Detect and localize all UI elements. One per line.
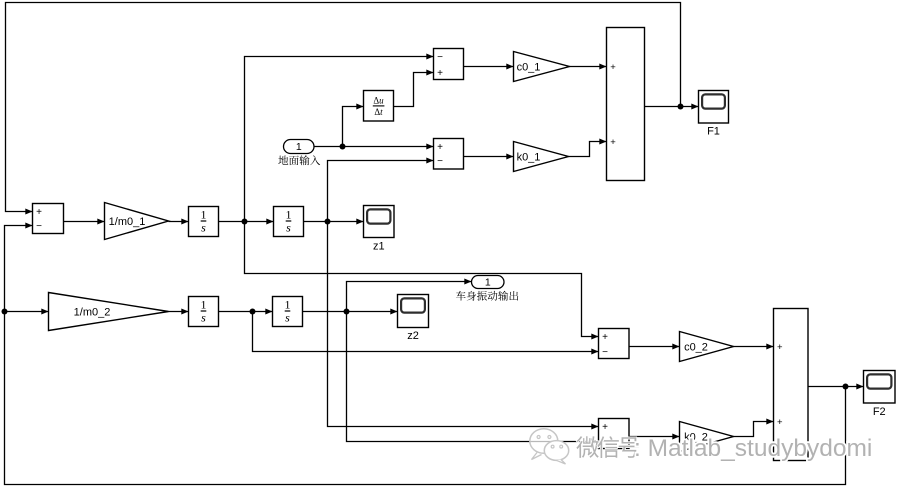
wire gain 1/m0_1 to integrator I1 bbox=[169, 221, 189, 223]
svg-text:+: + bbox=[602, 332, 608, 343]
wire adder Add1 output to scope F1 bbox=[645, 106, 699, 108]
node B wheel displacement junction bbox=[325, 219, 331, 225]
wire F1 feedback loop to sum S1 plus input bbox=[6, 3, 681, 212]
svg-text:c0_2: c0_2 bbox=[684, 342, 708, 354]
svg-text:1/m0_2: 1/m0_2 bbox=[74, 307, 111, 319]
out port 1 (body vibration output) bbox=[472, 276, 505, 289]
wire gain k0_2 to adder Add2 second plus input bbox=[734, 422, 774, 437]
adder Add2 (F2 sum) bbox=[774, 309, 809, 461]
wire sum S5 output to gain k0_2 bbox=[629, 436, 680, 438]
wire gain c0_2 to adder Add2 first plus input bbox=[734, 346, 774, 348]
sum S5 bbox=[599, 419, 630, 449]
wire sum S2 output to gain c0_1 bbox=[464, 66, 514, 68]
svg-text:z2: z2 bbox=[407, 330, 419, 342]
wire integrator I3 to integrator I4 bbox=[219, 311, 273, 313]
wire gain 1/m0_2 to integrator I3 bbox=[169, 311, 189, 313]
watermark text 微信号: Matlab_studybydomi bbox=[576, 435, 872, 462]
node C body velocity junction bbox=[250, 309, 256, 315]
svg-text:F1: F1 bbox=[707, 126, 720, 138]
svg-text:−: − bbox=[36, 221, 42, 232]
svg-text:+: + bbox=[777, 342, 783, 353]
in port 1 (ground input) bbox=[284, 140, 315, 154]
svg-text:1: 1 bbox=[296, 141, 302, 153]
node D body displacement junction bbox=[344, 309, 350, 315]
svg-text:c0_1: c0_1 bbox=[517, 62, 541, 74]
wire node D down to sum S5 minus input bbox=[347, 312, 599, 442]
watermark wechat icon bbox=[530, 429, 569, 464]
wire node C down to sum S4 minus input bbox=[253, 312, 599, 352]
svg-text:1: 1 bbox=[201, 208, 207, 222]
adder Add1 (F1 sum) bbox=[607, 28, 645, 181]
wire F2 feedback loop along bottom to sum S1 minus input bbox=[5, 226, 846, 485]
node G suspension force F2 junction bbox=[843, 384, 849, 390]
svg-text:s: s bbox=[201, 311, 206, 325]
wire adder Add2 output to scope F2 bbox=[808, 386, 864, 388]
svg-text:z1: z1 bbox=[373, 241, 385, 253]
scope z1 bbox=[364, 206, 395, 253]
derivative block du/dt bbox=[364, 91, 394, 122]
gain c0_2 bbox=[680, 332, 734, 362]
wire integrator I4 to scope z2 bbox=[303, 311, 398, 313]
wire gain k0_1 to adder Add1 second plus input bbox=[569, 142, 607, 157]
integrator I2 bbox=[274, 207, 304, 237]
gain k0_2 bbox=[680, 422, 734, 452]
svg-text:+: + bbox=[602, 422, 608, 433]
wire derivative output to sum S2 plus input bbox=[394, 73, 434, 107]
label 车身振动输出 for outport bbox=[456, 291, 518, 301]
integrator I1 bbox=[189, 207, 219, 237]
wire sum S1 output to gain 1/m0_1 bbox=[64, 221, 105, 223]
svg-text:1: 1 bbox=[201, 298, 207, 312]
gain c0_1 bbox=[514, 52, 570, 82]
svg-text:s: s bbox=[201, 221, 206, 235]
node E road input junction bbox=[340, 144, 346, 150]
wire gain c0_1 to adder Add1 first plus input bbox=[570, 66, 607, 68]
svg-text:+: + bbox=[777, 417, 783, 428]
svg-text:s: s bbox=[285, 311, 290, 325]
node H junction on F2 feedback at gain 1/m0_2 input bbox=[2, 309, 8, 315]
wire sum S4 output to gain c0_2 bbox=[629, 346, 680, 348]
wire node A down to sum S4 plus input bbox=[245, 222, 599, 337]
label 地面输入 for inport bbox=[278, 155, 320, 165]
gain G2 bbox=[49, 293, 169, 331]
sum S4 bbox=[599, 329, 630, 359]
svg-text:F2: F2 bbox=[873, 406, 886, 418]
wire node H to gain 1/m0_2 bbox=[5, 311, 49, 313]
svg-text:+: + bbox=[437, 68, 443, 79]
svg-text:+: + bbox=[610, 62, 616, 73]
svg-text:s: s bbox=[286, 221, 291, 235]
integrator I3 bbox=[189, 297, 219, 327]
gain G1 bbox=[105, 203, 169, 240]
wire node E up to derivative block bbox=[343, 107, 364, 147]
wire node B up to sum S3 minus input bbox=[328, 161, 434, 222]
svg-text:Δt: Δt bbox=[374, 107, 383, 117]
svg-text:+: + bbox=[437, 142, 443, 153]
svg-text:−: − bbox=[602, 347, 608, 358]
integrator I4 bbox=[273, 297, 303, 327]
svg-text:−: − bbox=[437, 156, 443, 167]
svg-text:−: − bbox=[437, 52, 443, 63]
sum S2 bbox=[434, 49, 464, 80]
svg-text:+: + bbox=[36, 207, 42, 218]
wire node D up to outport 1 bbox=[347, 282, 472, 312]
svg-text:1/m0_1: 1/m0_1 bbox=[109, 216, 146, 228]
wire integrator I1 to integrator I2 bbox=[219, 221, 274, 223]
wire node A up to sum S2 minus input bbox=[245, 57, 434, 222]
svg-text:Δu: Δu bbox=[373, 95, 384, 105]
svg-text:1: 1 bbox=[485, 277, 491, 289]
svg-text:k0_1: k0_1 bbox=[517, 152, 541, 164]
node F tire force F1 junction bbox=[678, 104, 684, 110]
scope F1 bbox=[699, 91, 729, 138]
sum S1 bbox=[33, 204, 64, 234]
scope z2 bbox=[398, 295, 429, 343]
node A wheel velocity junction bbox=[242, 219, 248, 225]
wire node B down to sum S5 plus input bbox=[328, 222, 599, 427]
scope F2 bbox=[864, 371, 896, 419]
wire integrator I2 to scope z1 bbox=[304, 221, 364, 223]
sum S3 bbox=[434, 139, 464, 170]
svg-text:1: 1 bbox=[286, 208, 292, 222]
svg-text:+: + bbox=[610, 137, 616, 148]
wire inport 1 to sum S3 plus input bbox=[314, 146, 434, 148]
wire sum S3 output to gain k0_1 bbox=[464, 156, 514, 158]
svg-text:: Matlab_studybydomi: : Matlab_studybydomi bbox=[634, 435, 872, 462]
svg-text:1: 1 bbox=[285, 298, 291, 312]
gain k0_1 bbox=[514, 142, 569, 172]
